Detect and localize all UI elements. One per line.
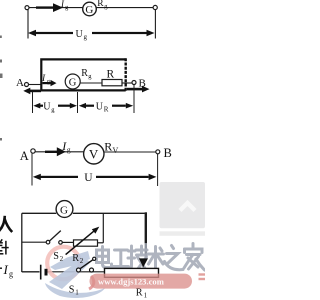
- svg-text:U: U: [84, 172, 93, 184]
- svg-text:R: R: [107, 68, 115, 80]
- svg-text:g: g: [51, 107, 55, 114]
- svg-text:www.dgjs123.com: www.dgjs123.com: [98, 277, 165, 287]
- svg-text:R: R: [81, 68, 88, 79]
- svg-text:G: G: [85, 4, 93, 16]
- svg-text:2: 2: [60, 255, 64, 263]
- svg-text:V: V: [113, 146, 119, 155]
- svg-text:S: S: [69, 284, 75, 295]
- svg-text:S: S: [53, 251, 59, 262]
- svg-text:B: B: [164, 146, 172, 160]
- svg-text:G: G: [60, 204, 68, 216]
- svg-text:I: I: [3, 262, 9, 277]
- svg-text:1: 1: [144, 291, 148, 299]
- svg-text:R: R: [104, 106, 109, 114]
- svg-text:V: V: [89, 147, 99, 162]
- svg-text:2: 2: [80, 257, 84, 265]
- svg-text:1: 1: [75, 288, 79, 296]
- svg-text:R: R: [136, 287, 143, 298]
- svg-text:g: g: [9, 270, 13, 279]
- svg-text:G: G: [69, 78, 77, 89]
- svg-text:A: A: [20, 149, 29, 163]
- svg-text:U: U: [43, 102, 51, 113]
- svg-text:U: U: [76, 29, 84, 40]
- svg-text:g: g: [104, 3, 108, 10]
- svg-text:g: g: [88, 73, 92, 80]
- svg-text:U: U: [96, 102, 104, 113]
- svg-text:g: g: [84, 33, 88, 41]
- svg-text:A: A: [16, 77, 24, 89]
- svg-text:R: R: [72, 253, 79, 264]
- svg-text:R: R: [104, 139, 112, 153]
- svg-text:g: g: [67, 145, 71, 154]
